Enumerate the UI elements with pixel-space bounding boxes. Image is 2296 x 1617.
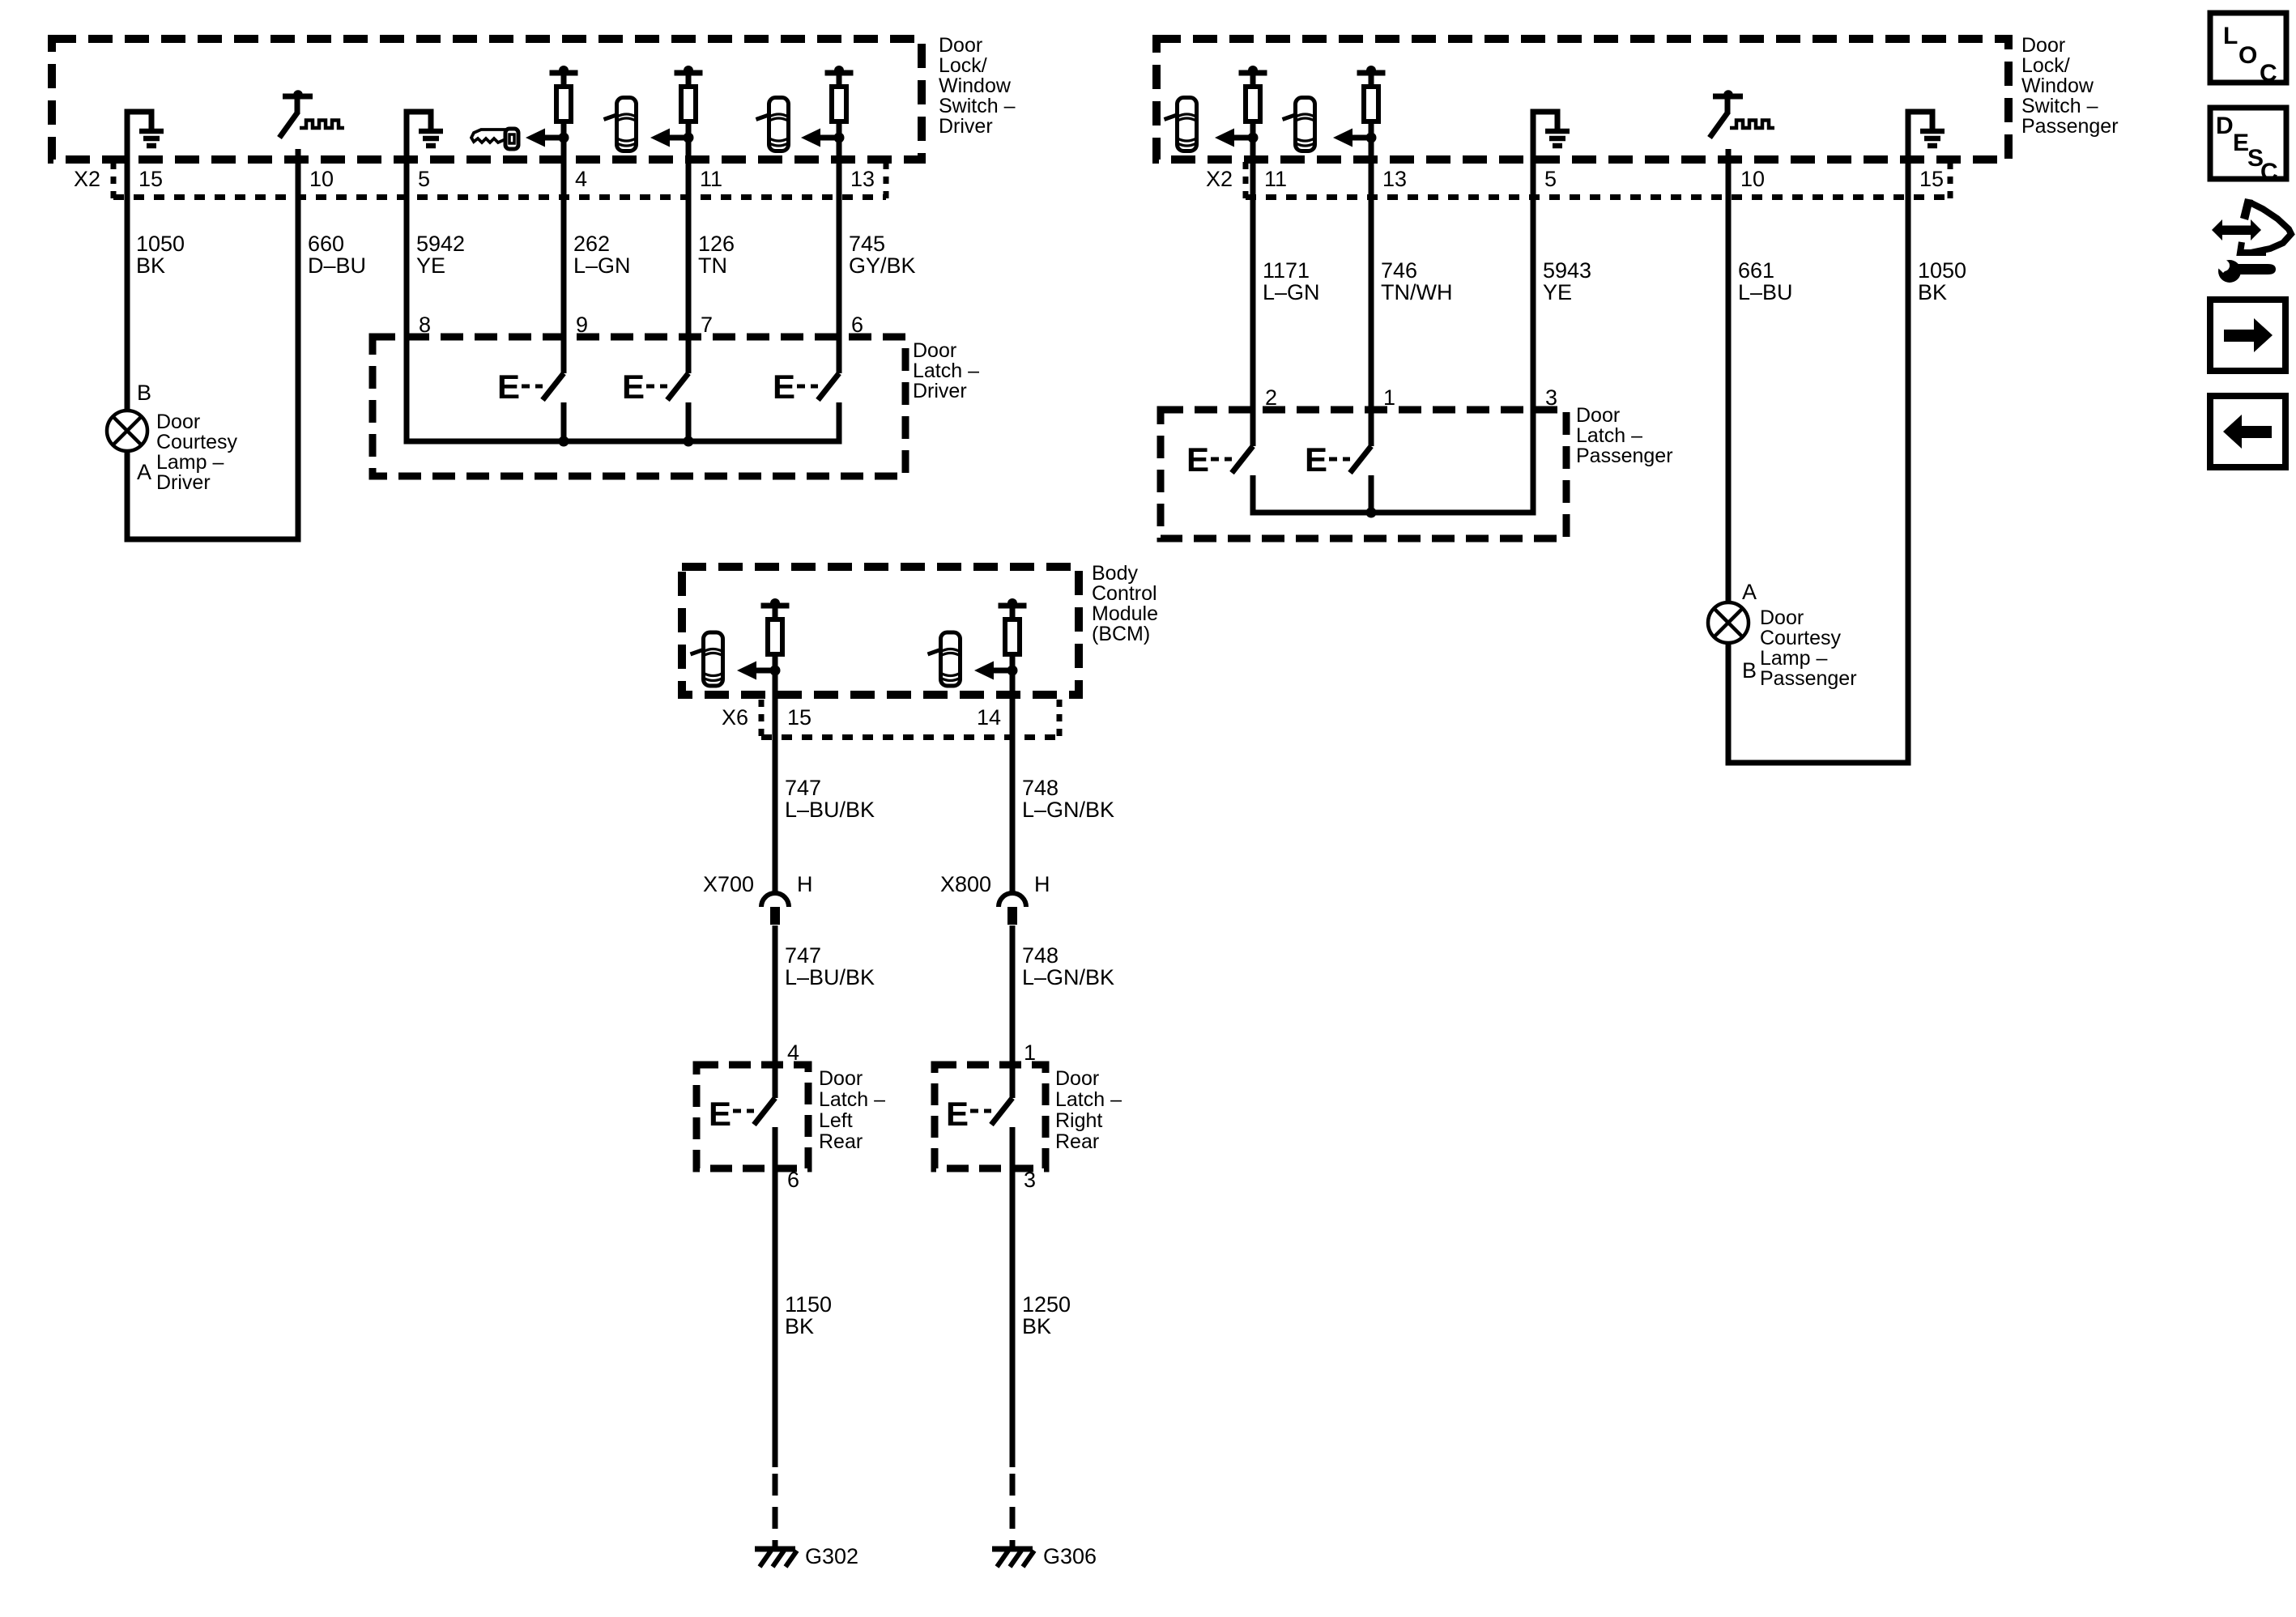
svg-text:Door: Door — [913, 339, 956, 362]
svg-text:Passenger: Passenger — [1576, 445, 1673, 467]
svg-text:BK: BK — [1918, 280, 1947, 304]
resistor pin 11 passenger — [1239, 66, 1267, 139]
ground symbol pin 15 driver — [125, 109, 164, 147]
lamp: Door Courtesy Lamp - Passenger — [1708, 602, 1749, 643]
label: Door Courtesy Lamp - Passenger — [1760, 606, 1857, 690]
connector X6: dotted row — [761, 700, 1059, 740]
svg-text:3: 3 — [1024, 1168, 1036, 1192]
label: Door Latch - Right Rear — [1055, 1067, 1122, 1153]
arrow tap pin 11 driver — [650, 129, 694, 147]
device box: Door Latch - Driver — [373, 337, 905, 476]
junction dot pin 7 — [684, 436, 694, 447]
resistor pin 4 driver — [550, 66, 578, 139]
wire lamp A to bottom return loop driver — [127, 324, 298, 539]
icon box LOC — [2210, 13, 2286, 87]
svg-text:1171: 1171 — [1263, 258, 1310, 283]
svg-text:L: L — [2223, 23, 2238, 49]
wire 262 L-GN pin 4 to latch — [561, 124, 567, 373]
lamp: Door Courtesy Lamp - Driver — [107, 411, 147, 451]
svg-text:Door: Door — [1760, 606, 1804, 629]
svg-text:TN: TN — [698, 253, 727, 278]
svg-text:L–GN: L–GN — [1263, 280, 1320, 304]
arrow tap BCM pin 15 — [737, 662, 781, 680]
svg-text:748: 748 — [1022, 943, 1059, 968]
svg-text:Door: Door — [939, 34, 982, 57]
connector X2 passenger: dotted row — [1246, 162, 1950, 200]
svg-text:Courtesy: Courtesy — [1760, 627, 1842, 649]
ground G306 — [992, 1549, 1034, 1567]
svg-text:Rear: Rear — [1055, 1130, 1099, 1153]
device box: Body Control Module (BCM) — [682, 567, 1079, 695]
svg-text:E: E — [2233, 130, 2249, 156]
wire 660 D-BU pin 10 — [296, 149, 301, 539]
svg-text:Switch –: Switch – — [2021, 95, 2098, 117]
wire right rear latch to ground — [1010, 1127, 1016, 1467]
svg-text:A: A — [137, 460, 151, 484]
label: Door Courtesy Lamp - Driver — [156, 411, 238, 494]
svg-text:Passenger: Passenger — [1760, 667, 1857, 690]
svg-text:11: 11 — [1264, 167, 1287, 191]
svg-text:14: 14 — [977, 705, 1001, 730]
svg-text:Lamp –: Lamp – — [156, 451, 224, 474]
svg-text:747: 747 — [785, 943, 821, 968]
latch switch E right rear — [946, 1095, 1012, 1133]
latch switch E pin 6 — [773, 368, 839, 406]
svg-text:E: E — [1186, 440, 1209, 479]
arrow tap pin 13 passenger — [1333, 129, 1377, 147]
arrow tap BCM pin 14 — [974, 662, 1018, 680]
svg-text:L–GN/BK: L–GN/BK — [1022, 965, 1114, 989]
svg-text:Left: Left — [819, 1109, 853, 1132]
ground G302 — [755, 1549, 797, 1567]
key icon — [471, 129, 518, 149]
svg-text:X700: X700 — [703, 872, 754, 896]
car icon BCM pin 15 — [691, 632, 723, 686]
svg-text:10: 10 — [309, 167, 334, 191]
svg-text:Body: Body — [1092, 562, 1138, 585]
label: Door Latch - Passenger — [1576, 404, 1673, 467]
svg-text:TN/WH: TN/WH — [1381, 280, 1452, 304]
svg-text:Passenger: Passenger — [2021, 115, 2119, 138]
svg-text:1150: 1150 — [785, 1292, 832, 1317]
svg-text:X6: X6 — [722, 705, 748, 730]
svg-text:L–BU/BK: L–BU/BK — [785, 965, 875, 989]
svg-text:D: D — [2216, 113, 2234, 139]
svg-text:O: O — [2238, 42, 2257, 69]
svg-text:5943: 5943 — [1543, 258, 1591, 283]
resistor pin 13 driver — [825, 66, 854, 139]
svg-text:4: 4 — [575, 167, 587, 191]
svg-text:L–GN: L–GN — [573, 253, 631, 278]
svg-text:Door: Door — [819, 1067, 863, 1090]
car icon pin 11 passenger — [1165, 98, 1197, 151]
svg-text:Switch –: Switch – — [939, 95, 1016, 117]
svg-text:Driver: Driver — [939, 115, 993, 138]
icon box arrow right — [2210, 300, 2285, 371]
momentary lock switch pin 10 driver — [279, 90, 344, 138]
svg-text:G302: G302 — [805, 1544, 858, 1568]
svg-text:BK: BK — [785, 1314, 814, 1338]
wire 1171 L-GN pin 11 to latch — [1250, 124, 1256, 446]
svg-text:Door: Door — [1055, 1067, 1099, 1090]
svg-text:X800: X800 — [940, 872, 991, 896]
svg-text:E: E — [497, 368, 520, 406]
icon connector-repair (double arrow, connector outline, wrench) — [2212, 198, 2291, 283]
svg-text:660: 660 — [308, 232, 344, 256]
arrow tap pin 4 driver — [526, 129, 569, 147]
label: Door Lock/Window Switch - Passenger — [2021, 34, 2119, 138]
resistor BCM pin 15 — [761, 598, 790, 672]
car icon BCM pin 14 — [928, 632, 961, 686]
svg-text:1050: 1050 — [136, 232, 185, 256]
wire 748 L-GN/BK lower — [1010, 926, 1016, 1098]
wire lamp B to bottom return loop passenger — [1728, 401, 1908, 763]
latch switch E pin 1 — [1305, 440, 1371, 513]
svg-text:Door: Door — [2021, 34, 2065, 57]
svg-text:C: C — [2260, 60, 2277, 87]
device box: Door Latch - Right Rear — [935, 1065, 1046, 1168]
dashed wire to G306 — [1010, 1474, 1016, 1549]
dashed wire to G302 — [773, 1474, 778, 1549]
svg-text:13: 13 — [850, 167, 875, 191]
svg-text:BK: BK — [136, 253, 165, 278]
svg-text:B: B — [1742, 658, 1757, 683]
svg-text:5942: 5942 — [416, 232, 465, 256]
svg-text:6: 6 — [787, 1168, 799, 1192]
svg-text:L–GN/BK: L–GN/BK — [1022, 798, 1114, 822]
latch switch E pin 2 — [1186, 440, 1253, 479]
svg-text:B: B — [137, 381, 151, 405]
svg-text:Rear: Rear — [819, 1130, 863, 1153]
arrow tap pin 13 driver — [801, 129, 845, 147]
svg-text:126: 126 — [698, 232, 735, 256]
svg-text:15: 15 — [138, 167, 163, 191]
svg-text:Driver: Driver — [913, 380, 967, 402]
svg-text:E: E — [1305, 440, 1327, 479]
svg-text:Right: Right — [1055, 1109, 1102, 1132]
svg-text:Control: Control — [1092, 582, 1157, 605]
wire 747 L-BU/BK lower — [773, 926, 778, 1098]
wire 1050 BK pin 15 passenger — [1906, 112, 1911, 405]
svg-text:Latch –: Latch – — [913, 360, 979, 382]
device box: Door Latch - Passenger — [1161, 410, 1566, 538]
wire 1050 BK pin 15 to lamp — [125, 112, 130, 411]
svg-text:Latch –: Latch – — [819, 1088, 885, 1111]
inline connector X700 pin H — [703, 872, 813, 925]
label: Door Latch - Driver — [913, 339, 979, 402]
svg-text:E: E — [946, 1095, 969, 1133]
wire left rear latch to ground — [773, 1127, 778, 1467]
svg-text:10: 10 — [1740, 167, 1765, 191]
junction dot pin 1 passenger — [1366, 508, 1377, 518]
latch switch E left rear — [709, 1095, 775, 1133]
svg-text:Lock/: Lock/ — [2021, 54, 2070, 77]
arrow tap pin 11 passenger — [1215, 129, 1259, 147]
svg-text:Window: Window — [939, 74, 1012, 97]
svg-text:H: H — [1034, 872, 1050, 896]
svg-text:747: 747 — [785, 776, 821, 800]
svg-text:Courtesy: Courtesy — [156, 431, 238, 453]
wire 661 L-BU pin 10 to lamp — [1726, 149, 1732, 603]
svg-text:E: E — [709, 1095, 731, 1133]
svg-text:262: 262 — [573, 232, 610, 256]
svg-text:L–BU: L–BU — [1738, 280, 1793, 304]
svg-text:5: 5 — [1544, 167, 1557, 191]
wire 746 TN/WH pin 13 to latch — [1369, 124, 1374, 446]
icon box arrow left — [2210, 396, 2285, 467]
car icon pin 13 passenger — [1283, 98, 1315, 151]
svg-text:D–BU: D–BU — [308, 253, 366, 278]
latch switch E pin 9 — [497, 368, 564, 441]
junction dot pin 9 — [559, 436, 569, 447]
device box: Door Latch - Left Rear — [696, 1065, 808, 1168]
svg-text:Lamp –: Lamp – — [1760, 647, 1827, 670]
svg-text:Driver: Driver — [156, 471, 211, 494]
svg-text:X2: X2 — [1206, 167, 1233, 191]
svg-text:13: 13 — [1382, 167, 1407, 191]
svg-text:Door: Door — [156, 411, 200, 433]
svg-text:Latch –: Latch – — [1055, 1088, 1122, 1111]
device box: Door Lock/Window Switch - Driver — [52, 39, 922, 160]
resistor BCM pin 14 — [999, 598, 1027, 672]
device box: Door Lock/Window Switch - Passenger — [1157, 39, 2008, 160]
svg-text:X2: X2 — [74, 167, 100, 191]
wire 748 L-GN/BK upper — [1010, 657, 1016, 894]
wire 5943 YE pin 5 to latch bus — [1253, 112, 1533, 513]
svg-text:15: 15 — [1919, 167, 1944, 191]
label: Door Latch - Left Rear — [819, 1067, 885, 1153]
svg-text:1050: 1050 — [1918, 258, 1966, 283]
svg-text:C: C — [2260, 159, 2278, 185]
ground symbol pin 5 driver — [404, 109, 444, 147]
svg-text:15: 15 — [787, 705, 811, 730]
resistor pin 11 driver — [675, 66, 703, 139]
svg-text:L–BU/BK: L–BU/BK — [785, 798, 875, 822]
svg-text:746: 746 — [1381, 258, 1417, 283]
svg-text:661: 661 — [1738, 258, 1774, 283]
svg-text:745: 745 — [849, 232, 885, 256]
resistor pin 13 passenger — [1357, 66, 1386, 139]
wire 5942 YE pin 5 to latch bus — [407, 112, 839, 441]
svg-text:(BCM): (BCM) — [1092, 623, 1150, 645]
svg-text:E: E — [622, 368, 645, 406]
label: Door Lock/Window Switch - Driver — [939, 34, 1016, 138]
wire 745 GY/BK pin 13 to latch — [837, 124, 842, 373]
momentary lock switch pin 10 passenger — [1710, 90, 1774, 138]
svg-text:748: 748 — [1022, 776, 1059, 800]
inline connector X800 pin H — [940, 872, 1050, 925]
svg-text:G306: G306 — [1043, 1544, 1097, 1568]
latch switch E pin 7 — [622, 368, 688, 441]
svg-text:H: H — [797, 872, 813, 896]
svg-text:Window: Window — [2021, 74, 2094, 97]
car icon pin 13 driver — [756, 98, 789, 151]
svg-text:1250: 1250 — [1022, 1292, 1071, 1317]
svg-text:GY/BK: GY/BK — [849, 253, 916, 278]
svg-text:Lock/: Lock/ — [939, 54, 987, 77]
svg-text:Latch –: Latch – — [1576, 424, 1642, 447]
wire 747 L-BU/BK upper — [773, 657, 778, 894]
svg-text:YE: YE — [1543, 280, 1572, 304]
svg-text:YE: YE — [416, 253, 445, 278]
svg-text:7: 7 — [701, 313, 713, 337]
ground symbol pin 15 passenger — [1906, 109, 1945, 147]
svg-text:Door: Door — [1576, 404, 1620, 427]
svg-text:E: E — [773, 368, 795, 406]
svg-text:5: 5 — [418, 167, 430, 191]
svg-text:A: A — [1742, 580, 1757, 604]
icon box DESC — [2210, 108, 2286, 185]
car icon pin 11 driver — [604, 98, 637, 151]
label: Body Control Module (BCM) — [1092, 562, 1158, 645]
svg-text:11: 11 — [700, 167, 722, 191]
wire 126 TN pin 11 to latch — [686, 124, 692, 373]
connector X2 driver: dotted row — [113, 162, 886, 200]
ground symbol pin 5 passenger — [1531, 109, 1570, 147]
svg-text:Module: Module — [1092, 602, 1158, 625]
svg-text:BK: BK — [1022, 1314, 1051, 1338]
